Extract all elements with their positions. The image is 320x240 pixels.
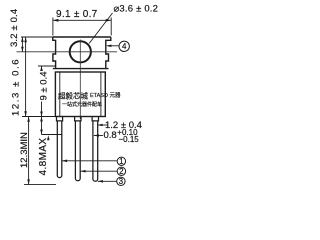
svg-text:3: 3 bbox=[119, 177, 124, 186]
svg-text:⌀3.6 ± 0.2: ⌀3.6 ± 0.2 bbox=[114, 4, 159, 15]
watermark bbox=[58, 91, 121, 109]
shoulder extension line bbox=[42, 134, 62, 136]
dimension 3.2±0.4 line bbox=[21, 36, 53, 38]
pin 2 circle bbox=[117, 167, 125, 175]
tab callout 4 leader bbox=[108, 45, 119, 47]
svg-text:超毅芯城: 超毅芯城 bbox=[58, 91, 88, 101]
horizontal centerline through hole bbox=[17, 51, 118, 53]
lead 2 bbox=[75, 121, 80, 181]
body (plastic) bbox=[55, 72, 105, 117]
vertical centerline bbox=[79, 40, 81, 120]
lead 3 bbox=[93, 121, 98, 181]
svg-text:4: 4 bbox=[122, 42, 127, 51]
lead 2 shoulder bbox=[75, 117, 81, 121]
pin 3 leader bbox=[98, 180, 117, 182]
lead 1 bbox=[57, 121, 62, 178]
svg-text:0.8: 0.8 bbox=[104, 130, 117, 141]
dimension 9.1±0.7 line bbox=[53, 19, 111, 21]
pin 2 leader bbox=[80, 170, 117, 172]
svg-text:4.8MAX: 4.8MAX bbox=[38, 138, 49, 176]
svg-text:1: 1 bbox=[119, 157, 124, 166]
dimension 4.8MAX line bbox=[41, 117, 43, 135]
svg-text:9.1 ± 0.7: 9.1 ± 0.7 bbox=[56, 9, 98, 20]
dimension 9.1±0.7 extension lines bbox=[53, 18, 111, 36]
svg-text:−0.15: −0.15 bbox=[119, 135, 140, 144]
phi3.6 leader bbox=[89, 13, 112, 43]
dimension 1.2±0.4 arrow bbox=[97, 124, 108, 126]
svg-text:一站式元器件配单: 一站式元器件配单 bbox=[62, 101, 102, 108]
dimension 12.3±0.6 line bbox=[25, 37, 27, 117]
dimension 9±0.4 extension bbox=[38, 65, 55, 67]
tab callout 4 circle bbox=[119, 41, 129, 51]
pin 1 circle bbox=[117, 157, 125, 165]
dimension 0.8 arrow bbox=[94, 135, 103, 137]
inner draft line left bbox=[59, 72, 61, 116]
mounting hole bbox=[70, 41, 91, 62]
pin 1 leader bbox=[62, 160, 117, 162]
inner draft line right bbox=[100, 72, 102, 116]
pin 3 circle bbox=[117, 177, 125, 185]
lead 1 shoulder bbox=[57, 117, 63, 121]
dimension 12.3MIN line bbox=[28, 117, 30, 185]
tab (metal header) outline bbox=[53, 37, 111, 69]
svg-text:9 ± 0.4: 9 ± 0.4 bbox=[39, 72, 50, 101]
lead 3 shoulder bbox=[92, 117, 98, 121]
dimension 9±0.4 line bbox=[41, 66, 43, 117]
svg-text:2: 2 bbox=[119, 167, 124, 176]
svg-text:12.3MIN: 12.3MIN bbox=[19, 132, 30, 168]
svg-text:12.3 ± 0.6: 12.3 ± 0.6 bbox=[11, 58, 22, 116]
body bottom extension line bbox=[22, 116, 55, 118]
4.8MAX pointer arrow bbox=[47, 135, 50, 140]
svg-text:3.2 ± 0.4: 3.2 ± 0.4 bbox=[9, 9, 20, 47]
lead tip extension line bbox=[24, 184, 56, 186]
